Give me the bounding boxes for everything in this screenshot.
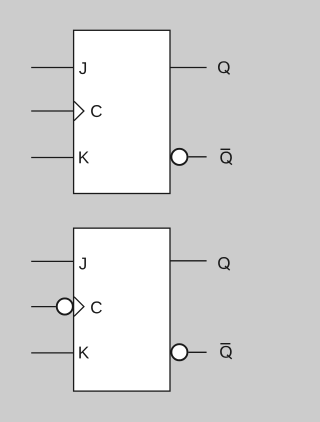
wire C clock input U2 — [31, 306, 56, 308]
inversion bubble on clock input U2 — [57, 298, 73, 314]
wire K input U2 — [31, 352, 74, 354]
pin label K (U2) — [79, 347, 89, 359]
pin label K (U1) — [79, 152, 89, 164]
pin label J (U1) — [79, 62, 86, 74]
pin label Q-bar (U2) — [220, 344, 232, 359]
inversion bubble on Q-bar output U1 — [171, 149, 187, 165]
pin label C (U2) — [91, 301, 102, 313]
pin label Q (U1) — [218, 61, 230, 74]
wire C clock input U1 — [31, 110, 74, 112]
clock edge-trigger triangle U1 — [74, 101, 84, 120]
pin label Q-bar (U1) — [220, 149, 232, 164]
wire Q-bar output U2 — [188, 351, 206, 353]
clock edge-trigger triangle U2 — [74, 297, 84, 317]
pin label C (U1) — [91, 105, 102, 117]
wire Q output U1 — [170, 67, 207, 69]
inversion bubble on Q-bar output U2 — [171, 344, 187, 360]
wire J input U2 — [31, 260, 74, 262]
wire K input U1 — [31, 157, 74, 159]
pin label J (U2) — [79, 258, 86, 270]
wire Q-bar output U1 — [188, 156, 206, 158]
flip-flop U1 body — [74, 30, 170, 193]
wire J input U1 — [31, 67, 74, 69]
wire Q output U2 — [170, 260, 207, 262]
pin label Q (U2) — [218, 257, 230, 270]
flip-flop U2 body — [74, 228, 170, 391]
